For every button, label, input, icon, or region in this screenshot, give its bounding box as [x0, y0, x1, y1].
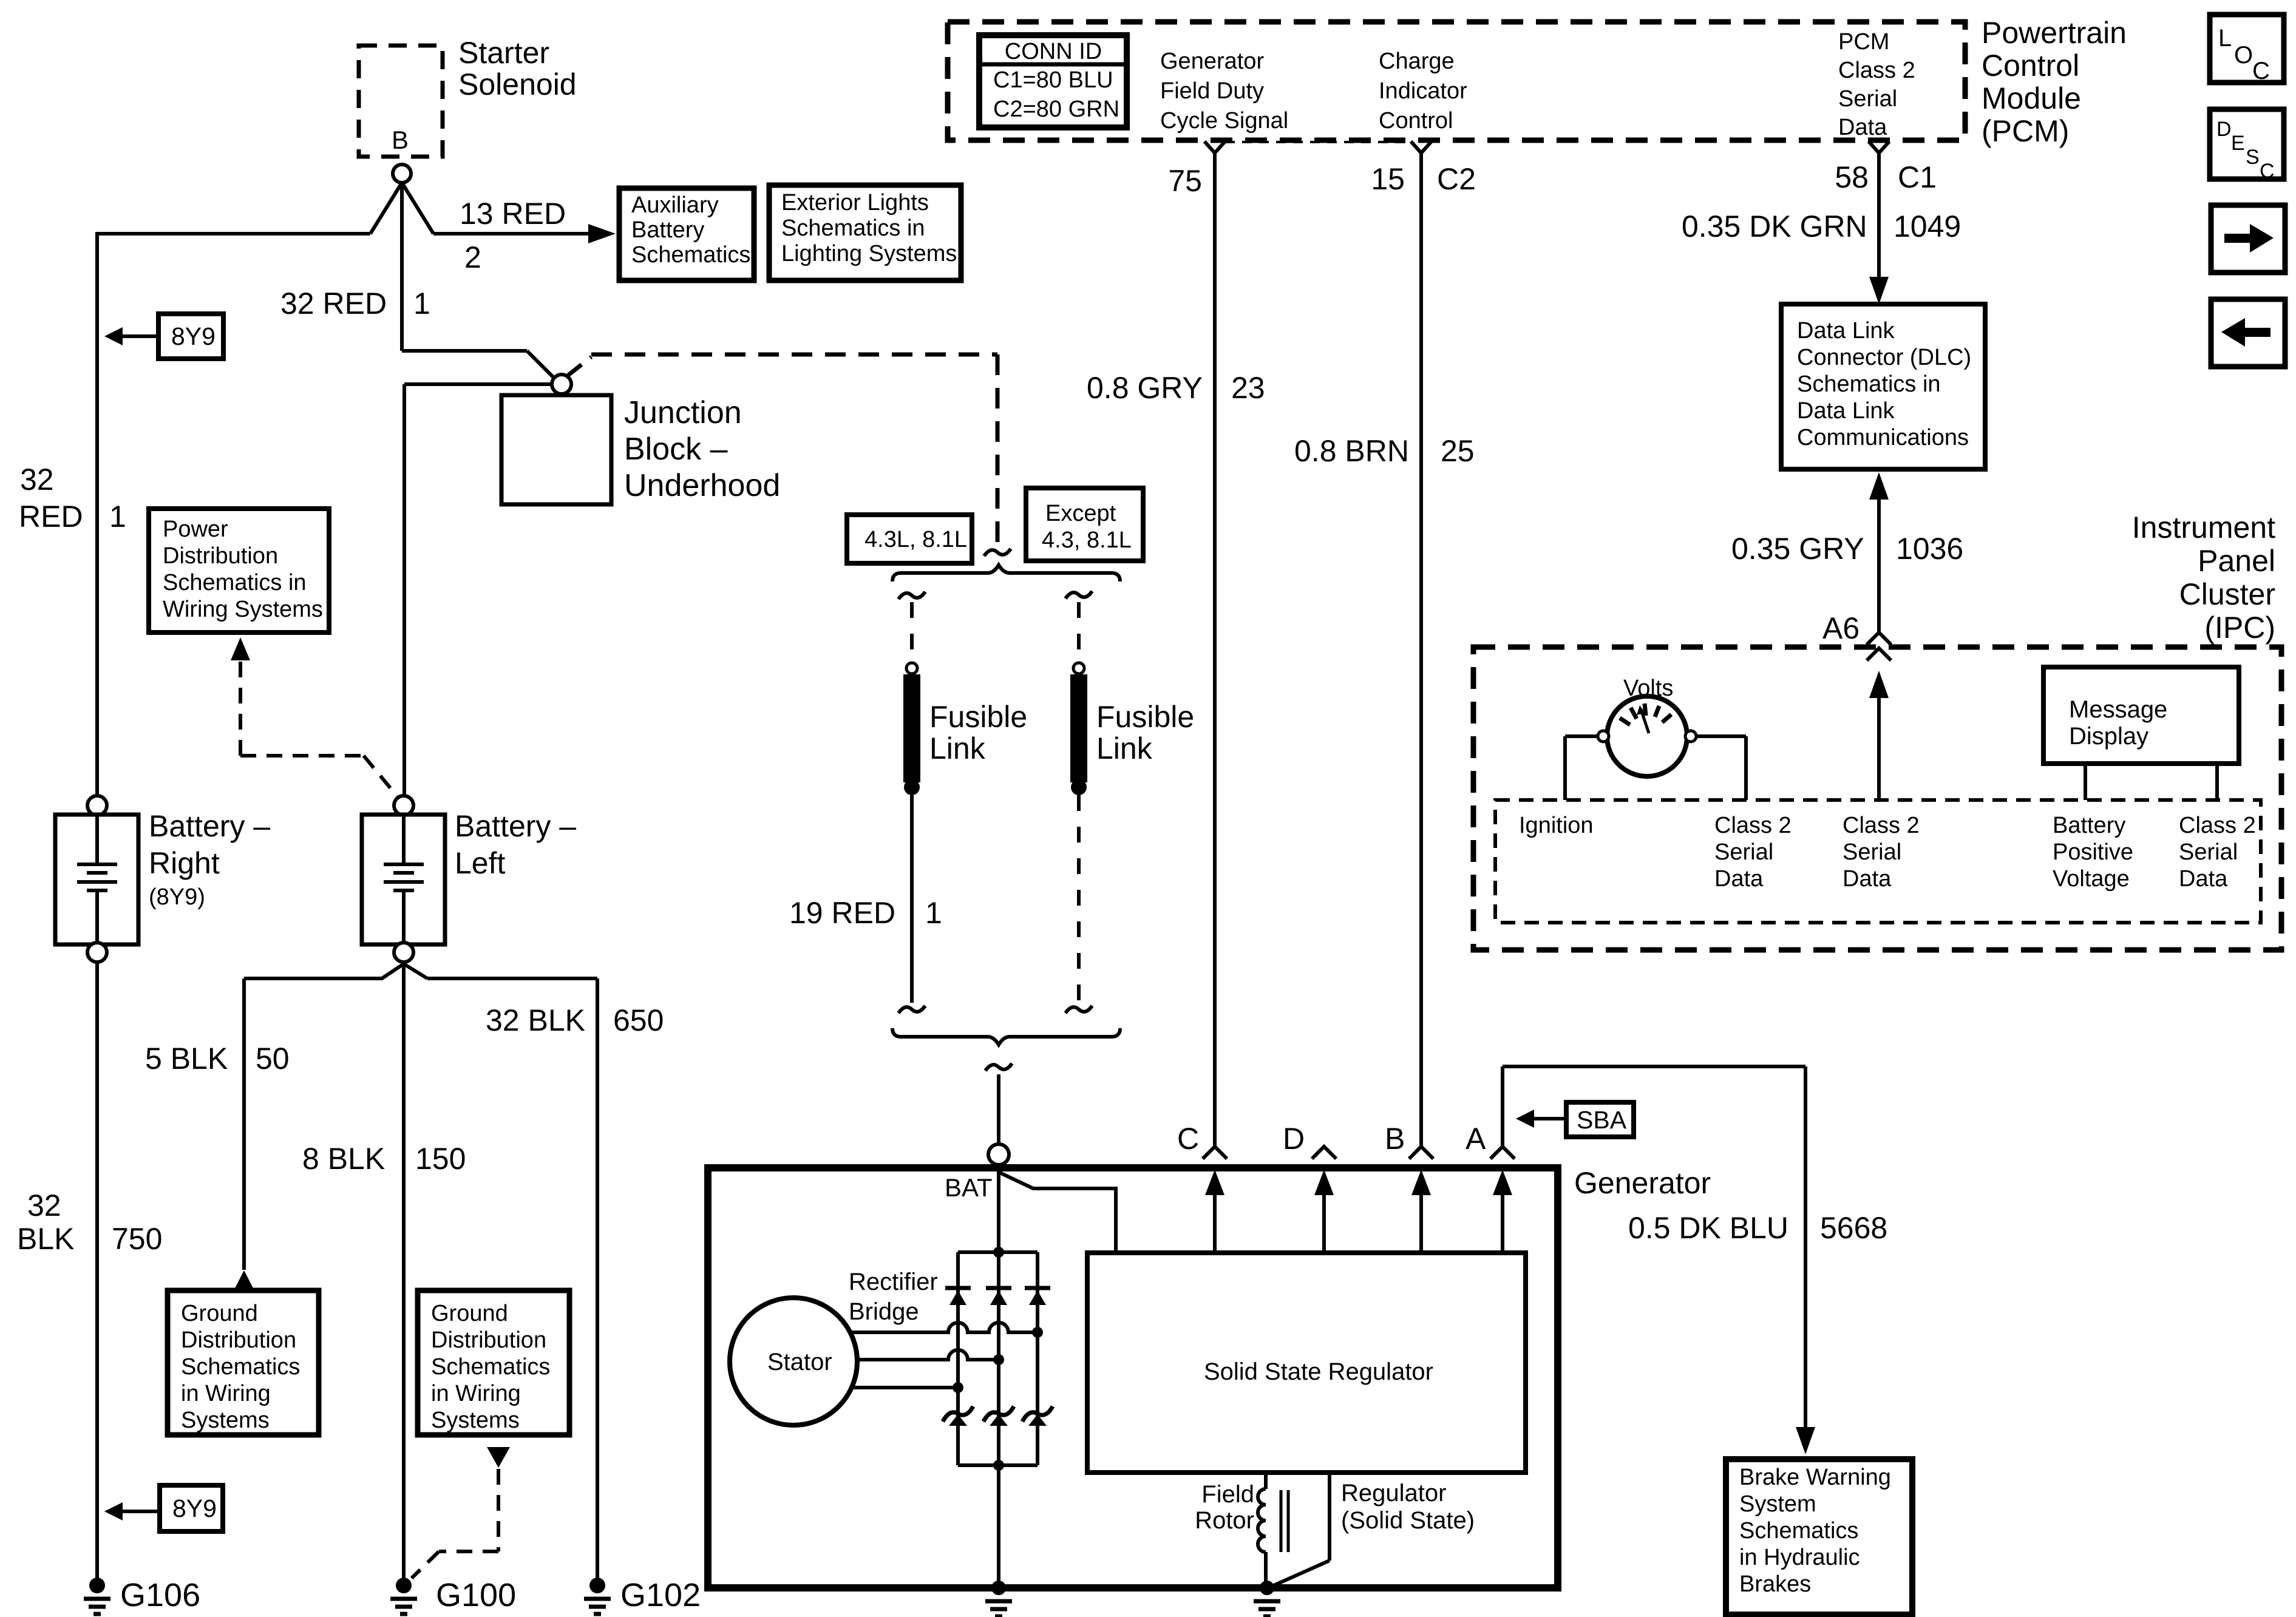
svg-text:Class 2: Class 2 — [1838, 58, 1915, 83]
svg-text:1: 1 — [109, 500, 126, 534]
svg-text:Class 2: Class 2 — [1843, 813, 1920, 838]
svg-text:25: 25 — [1441, 434, 1475, 468]
svg-text:G106: G106 — [120, 1577, 200, 1613]
svg-text:Positive: Positive — [2053, 839, 2133, 865]
svg-text:Charge: Charge — [1379, 49, 1455, 74]
svg-text:Field: Field — [1201, 1481, 1254, 1508]
svg-text:Generator: Generator — [1574, 1166, 1711, 1200]
svg-text:4.3, 8.1L: 4.3, 8.1L — [1042, 527, 1132, 553]
svg-text:Battery –: Battery – — [149, 809, 270, 843]
svg-text:75: 75 — [1168, 164, 1202, 198]
svg-text:0.8 GRY: 0.8 GRY — [1087, 371, 1203, 405]
svg-text:A: A — [1466, 1122, 1486, 1156]
svg-text:Schematics in: Schematics in — [781, 215, 925, 241]
svg-text:D: D — [2216, 118, 2232, 141]
svg-text:Brakes: Brakes — [1739, 1571, 1811, 1597]
svg-text:Voltage: Voltage — [2053, 866, 2130, 892]
svg-text:E: E — [2231, 132, 2245, 155]
svg-text:A6: A6 — [1822, 611, 1860, 645]
svg-text:C1: C1 — [1898, 160, 1937, 194]
svg-text:Data: Data — [1714, 866, 1764, 892]
svg-text:1049: 1049 — [1894, 209, 1961, 243]
svg-text:1: 1 — [925, 896, 942, 930]
svg-text:Schematics: Schematics — [431, 1354, 550, 1380]
svg-text:Data Link: Data Link — [1797, 398, 1895, 424]
svg-text:Field Duty: Field Duty — [1160, 78, 1264, 104]
svg-text:Connector (DLC): Connector (DLC) — [1797, 345, 1971, 370]
svg-text:B: B — [392, 126, 409, 154]
svg-text:32 BLK: 32 BLK — [486, 1003, 585, 1037]
svg-text:Generator: Generator — [1160, 49, 1264, 74]
svg-text:Fusible: Fusible — [929, 700, 1027, 734]
svg-text:Volts: Volts — [1623, 676, 1673, 701]
svg-text:Serial: Serial — [1838, 86, 1897, 112]
svg-text:15: 15 — [1371, 162, 1405, 196]
svg-text:C: C — [1177, 1122, 1199, 1156]
svg-text:Display: Display — [2069, 723, 2148, 750]
svg-text:Powertrain: Powertrain — [1982, 16, 2127, 50]
svg-text:Distribution: Distribution — [163, 543, 278, 569]
svg-text:RED: RED — [19, 500, 83, 534]
svg-text:Solid State Regulator: Solid State Regulator — [1204, 1358, 1433, 1385]
svg-text:Schematics in: Schematics in — [163, 570, 307, 595]
svg-text:Starter: Starter — [458, 36, 549, 70]
svg-text:BLK: BLK — [17, 1222, 75, 1256]
svg-text:0.35 GRY: 0.35 GRY — [1731, 532, 1864, 566]
svg-text:Auxiliary: Auxiliary — [631, 192, 719, 218]
svg-text:(8Y9): (8Y9) — [149, 884, 205, 910]
svg-text:Serial: Serial — [1843, 839, 1901, 865]
svg-text:32: 32 — [27, 1188, 61, 1222]
svg-text:Ground: Ground — [431, 1301, 508, 1326]
svg-text:Class 2: Class 2 — [2179, 813, 2256, 838]
svg-text:Block –: Block – — [624, 432, 728, 467]
svg-text:G100: G100 — [436, 1577, 516, 1613]
svg-text:in Wiring: in Wiring — [431, 1381, 521, 1406]
svg-text:Panel: Panel — [2198, 544, 2275, 578]
svg-text:PCM: PCM — [1838, 29, 1889, 55]
svg-text:Schematics: Schematics — [1739, 1518, 1858, 1544]
svg-text:Data: Data — [1843, 866, 1892, 892]
svg-text:(Solid State): (Solid State) — [1341, 1507, 1475, 1534]
svg-text:Data: Data — [2179, 866, 2228, 892]
svg-text:2: 2 — [464, 240, 481, 274]
svg-text:Link: Link — [929, 731, 986, 765]
svg-text:Serial: Serial — [2179, 839, 2238, 865]
svg-text:Systems: Systems — [431, 1408, 520, 1433]
svg-text:Message: Message — [2069, 696, 2167, 723]
svg-text:Junction: Junction — [624, 395, 742, 430]
svg-text:L: L — [2218, 25, 2232, 52]
svg-text:Cluster: Cluster — [2179, 577, 2275, 611]
svg-text:SBA: SBA — [1577, 1106, 1627, 1134]
svg-text:5668: 5668 — [1820, 1211, 1887, 1245]
svg-text:5 BLK: 5 BLK — [145, 1042, 228, 1076]
svg-text:B: B — [1385, 1122, 1405, 1156]
svg-text:8 BLK: 8 BLK — [302, 1142, 385, 1176]
svg-text:Indicator: Indicator — [1379, 78, 1467, 104]
svg-text:O: O — [2234, 42, 2253, 69]
svg-text:Lighting Systems: Lighting Systems — [781, 241, 957, 266]
svg-text:Wiring Systems: Wiring Systems — [163, 597, 323, 622]
svg-text:8Y9: 8Y9 — [171, 322, 216, 350]
svg-text:Brake Warning: Brake Warning — [1739, 1465, 1891, 1490]
svg-text:S: S — [2246, 146, 2260, 169]
svg-text:Stator: Stator — [767, 1349, 832, 1375]
svg-text:0.8 BRN: 0.8 BRN — [1294, 434, 1409, 468]
svg-text:CONN ID: CONN ID — [1005, 39, 1102, 64]
svg-text:Schematics in: Schematics in — [1797, 371, 1941, 397]
svg-text:D: D — [1283, 1122, 1305, 1156]
svg-text:System: System — [1739, 1491, 1816, 1517]
svg-text:Left: Left — [455, 846, 506, 880]
svg-text:Rectifier: Rectifier — [849, 1269, 938, 1295]
svg-text:G102: G102 — [620, 1577, 701, 1613]
svg-text:Link: Link — [1096, 731, 1153, 765]
svg-text:19 RED: 19 RED — [789, 896, 895, 930]
svg-text:13 RED: 13 RED — [460, 197, 566, 231]
svg-text:Schematics: Schematics — [181, 1354, 300, 1380]
svg-text:Power: Power — [163, 517, 228, 542]
svg-text:150: 150 — [415, 1142, 466, 1176]
svg-text:C2: C2 — [1437, 162, 1476, 196]
svg-text:Class 2: Class 2 — [1714, 813, 1792, 838]
svg-text:4.3L, 8.1L: 4.3L, 8.1L — [864, 527, 967, 552]
svg-text:BAT: BAT — [945, 1173, 993, 1202]
svg-text:Module: Module — [1982, 81, 2081, 115]
svg-text:Rotor: Rotor — [1195, 1507, 1254, 1534]
svg-text:750: 750 — [112, 1222, 162, 1256]
svg-text:Battery: Battery — [631, 217, 704, 243]
svg-text:Instrument: Instrument — [2132, 510, 2275, 544]
svg-text:1: 1 — [413, 286, 430, 320]
svg-text:Serial: Serial — [1714, 839, 1773, 865]
svg-text:1036: 1036 — [1896, 532, 1963, 566]
svg-text:(PCM): (PCM) — [1982, 114, 2069, 148]
svg-text:50: 50 — [256, 1042, 290, 1076]
svg-text:Data: Data — [1838, 115, 1887, 140]
svg-text:Right: Right — [149, 846, 220, 880]
svg-text:Ground: Ground — [181, 1301, 258, 1326]
svg-text:in Wiring: in Wiring — [181, 1381, 271, 1406]
svg-text:Control: Control — [1982, 49, 2079, 83]
svg-text:Systems: Systems — [181, 1408, 270, 1433]
svg-text:Battery: Battery — [2053, 813, 2125, 838]
svg-text:in Hydraulic: in Hydraulic — [1739, 1545, 1860, 1570]
svg-text:Communications: Communications — [1797, 425, 1969, 450]
svg-text:32 RED: 32 RED — [280, 286, 387, 320]
svg-text:Solenoid: Solenoid — [458, 67, 577, 101]
svg-text:Regulator: Regulator — [1341, 1480, 1446, 1507]
svg-text:C: C — [2252, 58, 2270, 84]
svg-text:0.35 DK GRN: 0.35 DK GRN — [1682, 209, 1867, 243]
svg-text:32: 32 — [20, 463, 54, 497]
svg-text:(IPC): (IPC) — [2204, 611, 2275, 645]
svg-text:C1=80 BLU: C1=80 BLU — [993, 67, 1113, 93]
svg-text:Control: Control — [1379, 108, 1453, 134]
svg-text:Ignition: Ignition — [1519, 813, 1594, 838]
svg-text:Exterior Lights: Exterior Lights — [781, 190, 929, 215]
svg-text:8Y9: 8Y9 — [172, 1494, 217, 1522]
svg-text:Distribution: Distribution — [431, 1327, 546, 1353]
svg-text:Cycle Signal: Cycle Signal — [1160, 108, 1288, 134]
svg-text:Underhood: Underhood — [624, 468, 780, 503]
svg-text:Schematics: Schematics — [631, 242, 750, 268]
svg-text:C: C — [2260, 160, 2275, 183]
svg-text:0.5 DK BLU: 0.5 DK BLU — [1628, 1211, 1788, 1245]
svg-text:Data Link: Data Link — [1797, 318, 1895, 344]
svg-text:Except: Except — [1045, 501, 1116, 526]
svg-text:58: 58 — [1835, 160, 1869, 194]
svg-text:23: 23 — [1231, 371, 1265, 405]
svg-text:650: 650 — [613, 1003, 664, 1037]
svg-text:Fusible: Fusible — [1096, 700, 1194, 734]
svg-text:C2=80 GRN: C2=80 GRN — [993, 97, 1119, 122]
svg-text:Distribution: Distribution — [181, 1327, 296, 1353]
svg-text:Bridge: Bridge — [849, 1298, 919, 1325]
svg-text:Battery –: Battery – — [455, 809, 576, 843]
